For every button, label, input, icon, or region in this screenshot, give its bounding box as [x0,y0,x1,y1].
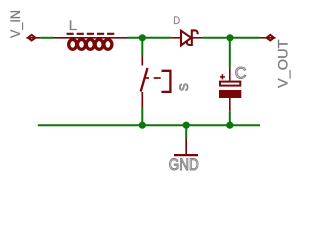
svg-text:C: C [235,65,247,83]
svg-text:D: D [173,15,180,27]
diode D (schottky) [172,30,203,45]
wire V_IN to L [40,37,54,39]
wire junction down to capacitor [229,38,231,67]
junction node at L/switch/diode [139,34,146,41]
boost converter schematic [0,0,309,181]
junction node gnd/bottom [183,122,190,129]
junction node switch/bottom [139,122,146,129]
inductor L [54,34,127,50]
wire diode to V_OUT [202,37,260,39]
port V_OUT [261,34,276,42]
ground [174,139,198,156]
junction node above capacitor [226,34,233,41]
svg-text:V_IN: V_IN [7,10,23,38]
bottom ground rail wire [38,124,260,126]
wire switch to bottom junction [141,108,143,126]
junction node cap/bottom [226,122,233,129]
capacitor C (polarized) [219,67,241,111]
plus polarity mark [220,76,225,78]
wire L to junction to diode [127,37,172,39]
wire to ground symbol [185,125,187,138]
svg-text:L: L [69,18,78,33]
svg-text:GND: GND [169,155,199,174]
svg-text:S: S [177,83,191,91]
port V_IN [26,34,40,42]
wire junction down to switch [141,38,143,55]
wire capacitor to bottom wire [229,111,231,125]
switch S [141,55,171,108]
svg-text:V_OUT: V_OUT [274,39,290,88]
